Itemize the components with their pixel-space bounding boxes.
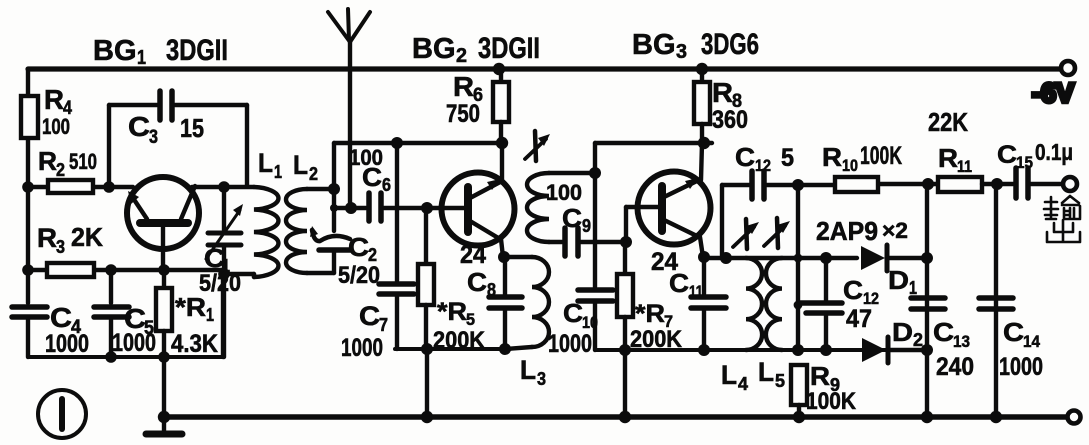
transistor BG1 bbox=[127, 177, 199, 270]
svg-text:360: 360 bbox=[712, 106, 748, 134]
svg-text:R: R bbox=[38, 146, 57, 176]
svg-text:R: R bbox=[712, 77, 733, 108]
svg-text:R: R bbox=[453, 71, 474, 102]
svg-text:11: 11 bbox=[689, 282, 703, 301]
svg-text:C: C bbox=[359, 301, 380, 331]
svg-text:1000: 1000 bbox=[548, 330, 592, 358]
svg-text:9: 9 bbox=[582, 216, 591, 236]
diode D1 bbox=[861, 245, 927, 271]
capacitor C12 5 coupling bbox=[722, 183, 749, 187]
svg-text:3DG6: 3DG6 bbox=[701, 28, 759, 61]
svg-text:100K: 100K bbox=[860, 142, 902, 170]
node output terminal bbox=[1063, 177, 1077, 191]
svg-text:47: 47 bbox=[846, 305, 872, 333]
svg-text:L: L bbox=[293, 150, 308, 180]
svg-text:4: 4 bbox=[738, 374, 748, 394]
wire BG3 bottom bus bbox=[595, 348, 927, 352]
svg-text:8: 8 bbox=[487, 280, 496, 300]
capacitor C15 bbox=[1013, 168, 1019, 198]
capacitor C12 47 bbox=[824, 258, 828, 301]
transistor BG2 bbox=[442, 173, 515, 246]
antenna bbox=[328, 9, 370, 208]
label figure number 1 bbox=[38, 390, 86, 438]
svg-text:1000: 1000 bbox=[999, 353, 1043, 381]
svg-text:750: 750 bbox=[446, 100, 480, 128]
svg-text:C: C bbox=[933, 317, 954, 347]
svg-text:-6V: -6V bbox=[1032, 78, 1074, 108]
resistor R9 100K bbox=[791, 365, 807, 405]
svg-text:C: C bbox=[50, 302, 72, 333]
wire BG3 collector up bbox=[701, 143, 702, 180]
svg-text:3: 3 bbox=[676, 41, 687, 63]
svg-text:14: 14 bbox=[1023, 332, 1040, 351]
node C7 top bbox=[391, 137, 403, 149]
svg-text:*R: *R bbox=[175, 292, 206, 322]
wire C3 feedback loop left bbox=[107, 105, 111, 187]
svg-text:5: 5 bbox=[781, 144, 794, 172]
node D2 cathode junction bbox=[921, 344, 933, 356]
capacitor C10 bbox=[578, 287, 613, 293]
svg-text:C: C bbox=[1003, 317, 1024, 347]
wire BG2 emitter bus bbox=[395, 347, 510, 351]
wire ground stem bbox=[162, 357, 166, 433]
node BG2 ground rail bbox=[421, 411, 433, 423]
svg-text:11: 11 bbox=[957, 157, 972, 176]
svg-text:C: C bbox=[669, 268, 689, 298]
svg-text:5/20: 5/20 bbox=[338, 262, 380, 289]
node output ground terminal bbox=[1068, 411, 1081, 424]
adjustment arrow L5 slug bbox=[764, 218, 790, 248]
svg-text:0.1μ: 0.1μ bbox=[1035, 139, 1073, 165]
wire R11 to C15 bbox=[982, 182, 1013, 186]
wire C13 column bbox=[925, 184, 929, 417]
wire top supply rail bbox=[28, 66, 1060, 71]
wire left supply drop bbox=[26, 69, 30, 187]
svg-text:100: 100 bbox=[42, 114, 70, 139]
node -6V terminal bbox=[1061, 61, 1075, 75]
svg-text:7: 7 bbox=[379, 315, 388, 335]
capacitor C8 bbox=[503, 257, 507, 295]
svg-text:15: 15 bbox=[180, 113, 204, 143]
svg-text:L: L bbox=[258, 148, 273, 178]
wire BG2 collector up bbox=[500, 143, 504, 180]
svg-text:C: C bbox=[843, 275, 863, 305]
resistor R8 360 bbox=[700, 69, 704, 82]
node L2 top bbox=[328, 183, 340, 195]
wire left drop to C4 bbox=[26, 187, 30, 303]
svg-text:1000: 1000 bbox=[45, 330, 89, 358]
ground bbox=[146, 431, 182, 438]
node C12 right junction bbox=[792, 179, 804, 191]
capacitor C5 bbox=[109, 270, 113, 303]
svg-text:*R: *R bbox=[437, 298, 467, 326]
wire C6 to BG2 base bbox=[384, 206, 464, 210]
wire C3 feedback loop right bbox=[175, 103, 247, 107]
svg-text:2K: 2K bbox=[71, 222, 103, 252]
wire C9 to BG3 base bbox=[581, 240, 626, 244]
node C5 top bbox=[105, 264, 117, 276]
node R7 bottom bbox=[619, 344, 631, 356]
svg-text:1000: 1000 bbox=[112, 329, 156, 357]
inductor L2 bbox=[286, 189, 334, 273]
node ground rail junction bbox=[158, 411, 170, 423]
resistor R7 bias 200K bbox=[623, 242, 627, 274]
resistor R3 bbox=[47, 263, 94, 277]
inductor L4 bbox=[746, 258, 762, 350]
svg-text:240: 240 bbox=[936, 353, 974, 381]
capacitor C7 bbox=[395, 143, 399, 281]
wire R3 emitter line bbox=[28, 268, 224, 272]
capacitor C4 bbox=[12, 304, 47, 310]
svg-text:C: C bbox=[362, 162, 382, 192]
node tank bottom junction bbox=[218, 268, 230, 280]
wire BG2 ground drop bbox=[425, 349, 429, 417]
resistor R5 bias 200K bbox=[424, 208, 428, 264]
svg-text:C: C bbox=[128, 111, 150, 142]
svg-text:5: 5 bbox=[775, 371, 785, 391]
inductor L3 bbox=[505, 257, 549, 349]
wire tank to C6 bbox=[334, 206, 366, 210]
wire base line bbox=[28, 185, 133, 189]
node BG2 collector junction bbox=[496, 137, 508, 149]
wire L2 tank vertical bbox=[332, 143, 336, 231]
transistor BG3 bbox=[638, 172, 711, 245]
wire base node to tank bbox=[192, 185, 254, 189]
svg-text:2: 2 bbox=[309, 164, 318, 184]
svg-text:D: D bbox=[892, 317, 913, 347]
capacitor C3 bbox=[157, 91, 163, 120]
svg-text:D: D bbox=[888, 265, 909, 295]
node BG3 ground rail bbox=[619, 411, 631, 423]
svg-text:3: 3 bbox=[537, 369, 546, 389]
svg-text:1: 1 bbox=[137, 47, 146, 69]
svg-text:×2: ×2 bbox=[882, 218, 908, 243]
wire BG3 ground drop bbox=[623, 350, 627, 417]
node C8 bottom bbox=[499, 343, 511, 355]
resistor R10 100K bbox=[835, 177, 878, 192]
inductor L5 bbox=[766, 258, 782, 350]
node BG3 emitter bbox=[698, 251, 710, 263]
wire output filter top bbox=[878, 182, 938, 186]
wire tank bottom drop bbox=[221, 274, 225, 357]
node R5 bias tap bbox=[421, 202, 433, 214]
svg-text:R: R bbox=[938, 143, 958, 173]
svg-text:2AP9: 2AP9 bbox=[816, 216, 878, 246]
wire BG2 emitter down bbox=[501, 239, 503, 257]
label BG3 3DG6 bbox=[632, 28, 759, 63]
svg-text:R: R bbox=[810, 361, 830, 391]
svg-text:3DGII: 3DGII bbox=[478, 32, 540, 65]
svg-text:L: L bbox=[721, 360, 737, 390]
adjustment arrow L4 slug bbox=[733, 219, 759, 249]
capacitor C13 bbox=[911, 295, 945, 301]
node R3 left bbox=[22, 264, 34, 276]
inductor T2 primary 100 bbox=[527, 173, 595, 242]
node C12 47 left plate bbox=[794, 301, 803, 310]
node R5 bottom bbox=[421, 343, 433, 355]
node C5 bottom bbox=[105, 351, 117, 363]
resistor R4 bbox=[21, 96, 38, 138]
svg-text:6: 6 bbox=[382, 175, 391, 195]
wire bottom ground rail bbox=[163, 414, 1066, 420]
label BG2 3DG11 bbox=[412, 32, 540, 67]
label output chinese bbox=[1044, 196, 1080, 242]
svg-text:3: 3 bbox=[149, 127, 158, 148]
svg-text:1: 1 bbox=[206, 305, 214, 325]
wire collector feed BG2 bbox=[334, 141, 502, 145]
svg-text:L: L bbox=[758, 357, 774, 387]
node R9 top bbox=[792, 344, 804, 356]
svg-text:R: R bbox=[822, 142, 842, 172]
node BG1 base rail junction bbox=[22, 181, 34, 193]
svg-text:C: C bbox=[735, 142, 755, 172]
node R7 tap bbox=[620, 236, 632, 248]
capacitor C1 variable 5/20 bbox=[206, 187, 243, 357]
svg-text:100K: 100K bbox=[806, 388, 857, 415]
node C12 coupling tap bbox=[720, 252, 732, 264]
node C11 bottom bbox=[698, 344, 710, 356]
svg-text:3: 3 bbox=[56, 237, 65, 257]
adjustment arrow L3 slug bbox=[525, 131, 550, 161]
wire detector top bus bbox=[704, 256, 857, 260]
label BG1 3DG11 bbox=[93, 34, 228, 69]
svg-text:R: R bbox=[37, 223, 57, 253]
capacitor C6 bbox=[366, 193, 372, 221]
svg-text:1: 1 bbox=[909, 278, 917, 298]
svg-text:510: 510 bbox=[69, 149, 97, 174]
svg-text:3DGII: 3DGII bbox=[166, 34, 228, 67]
resistor R2 bbox=[48, 180, 93, 193]
capacitor C11 bbox=[702, 257, 706, 294]
capacitor C2 variable 5/20 bbox=[310, 226, 350, 273]
svg-text:L: L bbox=[520, 355, 536, 385]
svg-text:2: 2 bbox=[456, 45, 467, 67]
svg-text:R: R bbox=[44, 84, 64, 115]
svg-text:100: 100 bbox=[546, 180, 582, 205]
wire C14 column bbox=[994, 184, 998, 417]
svg-text:2: 2 bbox=[913, 330, 923, 350]
svg-text:C: C bbox=[997, 141, 1017, 169]
node C14 top bbox=[991, 178, 1003, 190]
wire bottom left bus bbox=[28, 355, 223, 359]
node D1 cathode junction bbox=[921, 252, 933, 264]
inductor L1 bbox=[224, 187, 278, 277]
node BG3 collector junction bbox=[698, 137, 710, 149]
svg-text:C: C bbox=[348, 232, 369, 262]
svg-text:1: 1 bbox=[274, 162, 282, 182]
svg-text:24: 24 bbox=[460, 241, 486, 269]
node antenna junction bbox=[345, 202, 357, 214]
svg-text:12: 12 bbox=[755, 156, 771, 175]
node T2 top bbox=[589, 167, 601, 179]
resistor R6 750 bbox=[499, 69, 503, 82]
svg-text:1000: 1000 bbox=[341, 334, 383, 362]
svg-text:C: C bbox=[467, 267, 487, 297]
wire BG3 collector feed bbox=[595, 141, 712, 145]
svg-text:2: 2 bbox=[56, 160, 65, 180]
wire BG3 emitter down bbox=[700, 237, 703, 257]
svg-text:4.3K: 4.3K bbox=[171, 330, 218, 358]
svg-text:C: C bbox=[563, 298, 583, 328]
label 2AP9x2 bbox=[816, 216, 908, 246]
node R2 right junction bbox=[103, 181, 115, 193]
diode D2 bbox=[862, 337, 927, 363]
svg-text:13: 13 bbox=[953, 332, 970, 351]
node C13 top bbox=[922, 178, 934, 190]
node emitter junction bbox=[158, 264, 170, 276]
svg-text:22K: 22K bbox=[928, 107, 968, 137]
resistor R11 22K bbox=[938, 177, 982, 192]
wire detector divider drop bbox=[796, 185, 800, 350]
svg-text:BG: BG bbox=[632, 29, 676, 61]
node R1 bottom bbox=[158, 351, 170, 363]
svg-text:10: 10 bbox=[842, 156, 858, 175]
resistor R1 bbox=[162, 270, 166, 288]
capacitor C14 bbox=[979, 295, 1013, 301]
svg-text:15: 15 bbox=[1016, 153, 1033, 172]
node antenna wire tap bbox=[330, 204, 338, 212]
svg-text:BG: BG bbox=[93, 35, 137, 67]
node L5 top junction bbox=[794, 254, 803, 263]
capacitor C9 bbox=[562, 228, 568, 256]
node tank top junction bbox=[218, 181, 230, 193]
svg-text:*R: *R bbox=[635, 300, 665, 328]
node BG2 emitter bbox=[498, 251, 510, 263]
svg-text:BG: BG bbox=[412, 33, 456, 65]
wire base riser bbox=[624, 207, 628, 242]
